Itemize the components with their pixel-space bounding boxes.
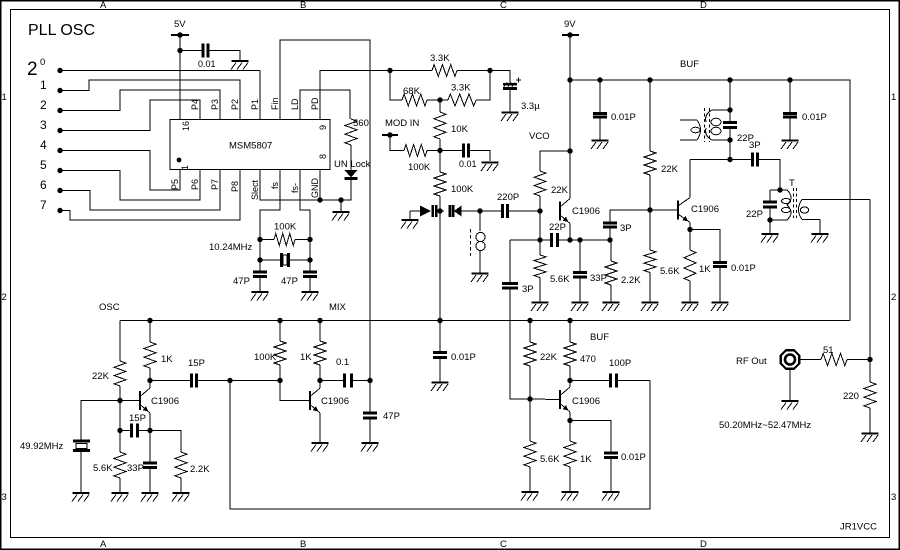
svg-text:7: 7	[40, 198, 47, 212]
svg-text:3P: 3P	[620, 223, 632, 234]
svg-text:3.3K: 3.3K	[451, 83, 471, 94]
svg-text:PLL OSC: PLL OSC	[28, 22, 95, 39]
svg-text:BUF: BUF	[590, 332, 609, 343]
svg-text:560: 560	[353, 118, 369, 129]
svg-text:47P: 47P	[383, 411, 400, 422]
svg-text:51: 51	[823, 345, 834, 356]
svg-text:220P: 220P	[497, 192, 519, 203]
svg-text:15P: 15P	[188, 358, 205, 369]
svg-text:1K: 1K	[580, 454, 592, 465]
svg-text:D: D	[700, 539, 707, 550]
svg-text:D: D	[700, 0, 707, 11]
svg-text:0.1: 0.1	[336, 357, 349, 368]
svg-text:47P: 47P	[233, 276, 250, 287]
svg-text:100K: 100K	[254, 352, 277, 363]
svg-text:P2: P2	[230, 99, 240, 110]
svg-text:P5: P5	[170, 179, 180, 190]
svg-text:C1906: C1906	[151, 396, 179, 407]
svg-text:P4: P4	[190, 99, 200, 110]
svg-text:5.6K: 5.6K	[93, 463, 113, 474]
svg-text:BUF: BUF	[680, 59, 699, 70]
svg-text:C: C	[500, 0, 507, 11]
svg-text:MIX: MIX	[329, 302, 347, 313]
svg-text:fs: fs	[270, 181, 280, 189]
svg-text:1: 1	[180, 165, 190, 170]
svg-text:2: 2	[2, 292, 7, 303]
svg-text:P3: P3	[210, 99, 220, 110]
svg-text:100K: 100K	[451, 184, 474, 195]
svg-text:68K: 68K	[403, 86, 421, 97]
svg-text:0.01P: 0.01P	[451, 352, 476, 363]
svg-text:22K: 22K	[540, 352, 558, 363]
svg-text:Fin: Fin	[270, 97, 280, 110]
svg-text:15P: 15P	[129, 413, 146, 424]
svg-text:1: 1	[40, 78, 47, 92]
svg-text:T: T	[789, 178, 795, 189]
svg-text:B: B	[300, 539, 306, 550]
svg-text:22P: 22P	[737, 133, 754, 144]
svg-text:3: 3	[891, 492, 896, 503]
svg-text:C: C	[500, 539, 507, 550]
svg-text:5.6K: 5.6K	[660, 266, 680, 277]
svg-text:2: 2	[40, 98, 47, 112]
svg-text:0.01: 0.01	[198, 59, 216, 69]
svg-text:100K: 100K	[408, 162, 431, 173]
svg-text:47P: 47P	[281, 276, 298, 287]
svg-text:22P: 22P	[746, 209, 763, 220]
svg-text:1K: 1K	[300, 352, 312, 363]
svg-text:22K: 22K	[661, 164, 679, 175]
svg-text:100P: 100P	[609, 358, 631, 369]
svg-text:MSM5807: MSM5807	[229, 141, 272, 152]
svg-text:33P: 33P	[127, 463, 144, 474]
svg-text:10.24MHz: 10.24MHz	[209, 242, 253, 253]
svg-text:100K: 100K	[274, 222, 297, 233]
svg-text:B: B	[300, 0, 306, 11]
svg-text:1: 1	[891, 92, 896, 103]
svg-text:OSC: OSC	[99, 302, 120, 313]
svg-text:50.20MHz~52.47MHz: 50.20MHz~52.47MHz	[719, 420, 811, 431]
svg-text:VCO: VCO	[529, 131, 550, 142]
svg-text:2.2K: 2.2K	[190, 464, 210, 475]
svg-text:LD: LD	[290, 98, 300, 110]
svg-text:P8: P8	[230, 181, 240, 192]
svg-text:0.01P: 0.01P	[621, 452, 646, 463]
svg-text:22K: 22K	[551, 185, 569, 196]
svg-text:C1906: C1906	[572, 396, 600, 407]
svg-text:A: A	[100, 0, 107, 11]
svg-text:Slect: Slect	[250, 179, 260, 200]
svg-text:1K: 1K	[161, 354, 173, 365]
svg-text:3P: 3P	[522, 284, 534, 295]
svg-text:33P: 33P	[590, 273, 607, 284]
svg-text:22P: 22P	[549, 222, 566, 233]
svg-text:2.2K: 2.2K	[621, 275, 641, 286]
svg-text:8: 8	[318, 154, 328, 159]
svg-text:4: 4	[40, 138, 47, 152]
svg-text:0.01P: 0.01P	[802, 112, 827, 123]
svg-text:9: 9	[318, 125, 328, 130]
svg-text:PD: PD	[310, 97, 320, 110]
svg-text:P1: P1	[250, 99, 260, 110]
svg-text:P7: P7	[210, 179, 220, 190]
svg-text:16: 16	[181, 121, 191, 131]
svg-text:RF Out: RF Out	[736, 356, 767, 367]
svg-text:C1906: C1906	[321, 396, 349, 407]
svg-text:0.01: 0.01	[459, 159, 477, 169]
svg-text:0: 0	[40, 57, 45, 68]
svg-text:6: 6	[40, 178, 47, 192]
svg-text:5V: 5V	[174, 19, 186, 30]
svg-text:2: 2	[27, 59, 38, 80]
svg-text:P6: P6	[190, 179, 200, 190]
svg-text:0.01P: 0.01P	[731, 263, 756, 274]
svg-text:0.01P: 0.01P	[611, 112, 636, 123]
svg-text:1K: 1K	[699, 264, 711, 275]
svg-text:2: 2	[891, 292, 896, 303]
svg-text:C1906: C1906	[691, 204, 719, 215]
svg-text:UN Lock: UN Lock	[334, 159, 371, 170]
svg-text:5.6K: 5.6K	[550, 274, 570, 285]
svg-text:5.6K: 5.6K	[540, 454, 560, 465]
svg-text:220: 220	[843, 391, 859, 402]
svg-text:3: 3	[2, 492, 7, 503]
svg-text:49.92MHz: 49.92MHz	[20, 441, 64, 452]
svg-text:3: 3	[40, 118, 47, 132]
svg-text:3.3K: 3.3K	[430, 53, 450, 64]
svg-text:A: A	[100, 539, 107, 550]
svg-text:10K: 10K	[451, 124, 469, 135]
svg-text:C1906: C1906	[572, 206, 600, 217]
svg-text:3.3µ: 3.3µ	[521, 101, 540, 112]
svg-text:5: 5	[40, 158, 47, 172]
svg-text:22K: 22K	[92, 371, 110, 382]
svg-text:MOD IN: MOD IN	[385, 118, 419, 129]
svg-text:JR1VCC: JR1VCC	[840, 522, 877, 533]
svg-text:GND: GND	[310, 178, 320, 199]
svg-text:470: 470	[580, 354, 596, 365]
svg-text:fs-: fs-	[290, 183, 300, 193]
svg-text:1: 1	[2, 92, 7, 103]
svg-text:9V: 9V	[564, 19, 576, 30]
